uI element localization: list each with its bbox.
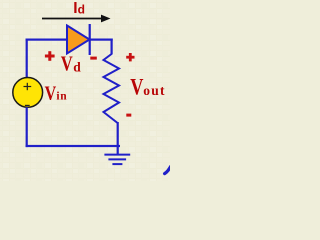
wire resistor bottom vertical to ground: [117, 122, 119, 155]
svg-text:V: V: [130, 75, 143, 100]
diode: [67, 24, 91, 55]
label + (top of Vout): [126, 53, 134, 61]
wire right vertical to resistor: [111, 39, 113, 55]
wire Vin bottom to lower-left corner: [26, 107, 28, 147]
resistor: [104, 54, 120, 123]
ground: [104, 155, 130, 165]
voltage source Vin: [13, 78, 43, 108]
wire top-left horizontal (corner to diode anode): [26, 39, 68, 41]
label + (anode of Vd): [45, 51, 55, 61]
current arrow Id: [42, 15, 111, 23]
label - (bottom of Vout): [126, 114, 131, 117]
wire left vertical (corner to Vin top): [26, 39, 28, 79]
svg-text:d: d: [78, 3, 85, 17]
wire diode cathode to right corner: [90, 39, 113, 41]
label Id: [73, 0, 85, 17]
label Vout: [130, 75, 165, 100]
label Vin: [45, 82, 68, 104]
svg-text:out: out: [143, 83, 165, 98]
label Vd: [61, 52, 81, 76]
wire bottom horizontal: [26, 145, 120, 147]
svg-text:in: in: [56, 90, 67, 102]
svg-text:V: V: [61, 52, 73, 76]
decorative blue stroke bottom-right: [165, 167, 171, 174]
svg-text:V: V: [45, 82, 57, 104]
svg-text:d: d: [73, 59, 81, 74]
label - (cathode of Vd): [90, 57, 97, 60]
